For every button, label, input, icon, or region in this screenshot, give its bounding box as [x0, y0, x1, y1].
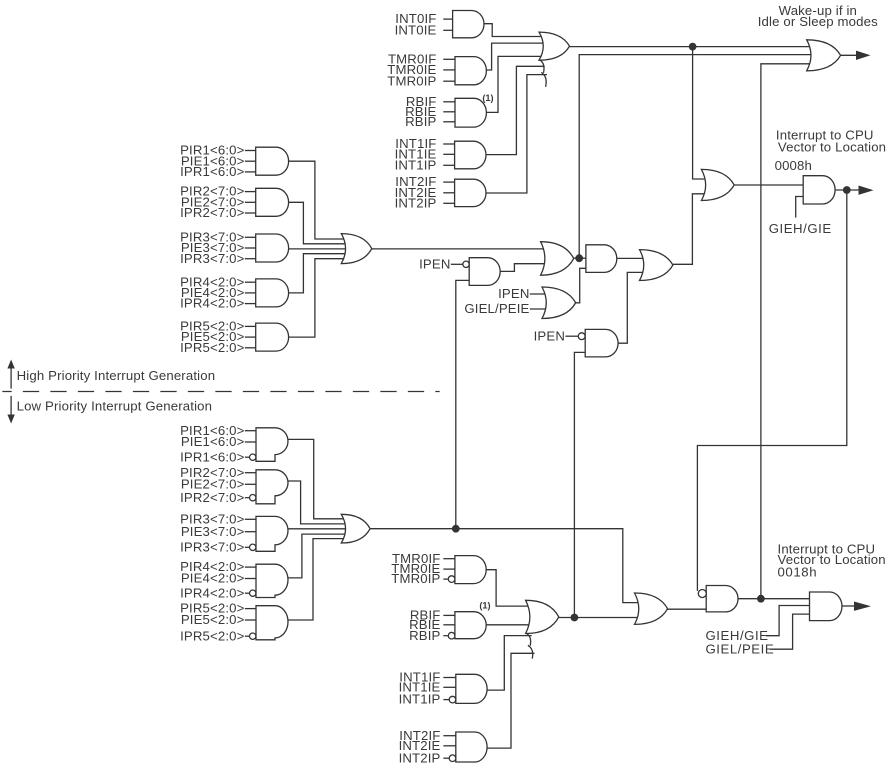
svg-text:INT0IE: INT0IE: [395, 22, 437, 37]
svg-text:IPR1<6:0>: IPR1<6:0>: [180, 164, 245, 179]
svg-text:GIEH/GIE: GIEH/GIE: [769, 221, 832, 236]
svg-text:(1): (1): [479, 600, 490, 610]
svg-text:IPEN: IPEN: [419, 256, 450, 271]
svg-text:Low Priority Interrupt Generat: Low Priority Interrupt Generation: [17, 399, 213, 414]
svg-text:IPR3<7:0>: IPR3<7:0>: [180, 251, 245, 266]
svg-text:Idle or Sleep modes: Idle or Sleep modes: [758, 14, 878, 29]
svg-text:0008h: 0008h: [775, 158, 812, 173]
svg-text:PIE1<6:0>: PIE1<6:0>: [181, 434, 245, 449]
svg-text:RBIP: RBIP: [409, 628, 440, 643]
svg-text:High Priority Interrupt Genera: High Priority Interrupt Generation: [17, 368, 216, 383]
svg-text:INT1IP: INT1IP: [395, 157, 437, 172]
svg-text:IPR2<7:0>: IPR2<7:0>: [180, 490, 245, 505]
svg-text:PIE5<2:0>: PIE5<2:0>: [181, 612, 245, 627]
svg-text:IPEN: IPEN: [498, 286, 529, 301]
svg-text:IPR5<2:0>: IPR5<2:0>: [180, 340, 245, 355]
svg-text:PIE3<7:0>: PIE3<7:0>: [181, 524, 245, 539]
svg-text:Vector to Location: Vector to Location: [778, 140, 886, 155]
svg-text:IPEN: IPEN: [534, 328, 565, 343]
svg-text:GIEL/PEIE: GIEL/PEIE: [464, 301, 529, 316]
svg-text:TMR0IP: TMR0IP: [391, 571, 440, 586]
svg-text:TMR0IP: TMR0IP: [387, 73, 436, 88]
svg-text:IPR4<2:0>: IPR4<2:0>: [180, 296, 245, 311]
svg-text:GIEL/PEIE: GIEL/PEIE: [706, 641, 775, 656]
svg-text:IPR3<7:0>: IPR3<7:0>: [180, 539, 245, 554]
svg-text:(1): (1): [482, 93, 493, 103]
svg-text:INT2IP: INT2IP: [399, 750, 441, 765]
svg-text:0018h: 0018h: [778, 565, 818, 580]
svg-text:IPR4<2:0>: IPR4<2:0>: [180, 585, 245, 600]
svg-text:INT1IP: INT1IP: [399, 692, 441, 707]
svg-text:IPR2<7:0>: IPR2<7:0>: [180, 205, 245, 220]
svg-text:INT2IP: INT2IP: [395, 195, 437, 210]
svg-text:IPR5<2:0>: IPR5<2:0>: [180, 628, 245, 643]
svg-text:PIE4<2:0>: PIE4<2:0>: [181, 571, 245, 586]
svg-text:IPR1<6:0>: IPR1<6:0>: [180, 449, 245, 464]
svg-text:RBIP: RBIP: [405, 114, 436, 129]
